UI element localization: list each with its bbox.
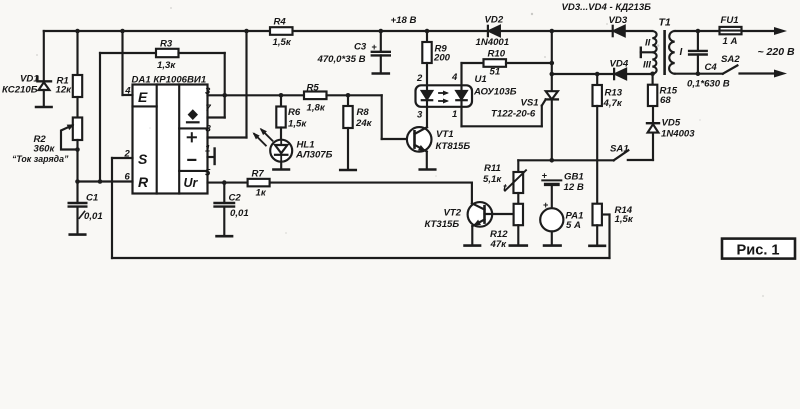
svg-text:12 В: 12 В xyxy=(564,182,584,193)
svg-text:470,0*35 В: 470,0*35 В xyxy=(317,54,366,65)
svg-text:1N4003: 1N4003 xyxy=(661,129,695,140)
svg-text:6: 6 xyxy=(125,172,131,183)
svg-text:E: E xyxy=(138,89,148,105)
svg-text:0,1*630 В: 0,1*630 В xyxy=(687,79,730,90)
svg-text:VD2: VD2 xyxy=(485,14,504,25)
svg-text:Рис. 1: Рис. 1 xyxy=(737,242,780,258)
svg-text:5: 5 xyxy=(205,168,211,179)
svg-text:1: 1 xyxy=(205,144,210,155)
svg-text:200: 200 xyxy=(433,53,451,64)
svg-text:1,3к: 1,3к xyxy=(157,60,176,71)
svg-text:12к: 12к xyxy=(56,85,73,96)
svg-text:51: 51 xyxy=(490,67,501,78)
svg-text:R11: R11 xyxy=(484,163,501,174)
svg-text:3: 3 xyxy=(417,109,423,120)
svg-text:КТ315Б: КТ315Б xyxy=(425,219,460,230)
svg-text:II: II xyxy=(645,37,651,48)
svg-text:U1: U1 xyxy=(475,74,487,85)
svg-text:VD3: VD3 xyxy=(609,15,628,26)
svg-text:t: t xyxy=(503,182,507,194)
svg-text:VD5: VD5 xyxy=(662,118,681,129)
svg-text:АЛ307Б: АЛ307Б xyxy=(295,150,333,161)
svg-text:+18 В: +18 В xyxy=(391,15,417,26)
svg-text:4,7к: 4,7к xyxy=(603,98,623,109)
svg-text:3: 3 xyxy=(205,86,211,97)
svg-text:Т122-20-6: Т122-20-6 xyxy=(491,109,536,120)
svg-text:VT1: VT1 xyxy=(436,129,454,140)
svg-text:“Ток заряда”: “Ток заряда” xyxy=(12,154,69,164)
svg-text:7: 7 xyxy=(206,103,212,114)
svg-text:24к: 24к xyxy=(355,118,373,129)
svg-text:GB1: GB1 xyxy=(564,172,584,183)
svg-text:VD4: VD4 xyxy=(610,58,629,69)
svg-text:C1: C1 xyxy=(86,193,98,204)
svg-text:VD1: VD1 xyxy=(20,74,39,85)
svg-text:R3: R3 xyxy=(160,39,173,50)
svg-text:1N4001: 1N4001 xyxy=(476,37,510,48)
svg-text:SA1: SA1 xyxy=(610,143,629,154)
svg-text:1к: 1к xyxy=(256,188,267,199)
svg-text:5 А: 5 А xyxy=(566,220,581,231)
svg-text:C3: C3 xyxy=(354,42,367,53)
svg-text:T1: T1 xyxy=(659,17,671,29)
svg-text:VD3...VD4 - КД213Б: VD3...VD4 - КД213Б xyxy=(562,2,652,13)
svg-text:R8: R8 xyxy=(357,107,370,118)
svg-text:S: S xyxy=(138,151,148,167)
svg-text:+: + xyxy=(543,200,548,210)
svg-text:VT2: VT2 xyxy=(444,207,462,218)
svg-text:R5: R5 xyxy=(307,82,320,93)
svg-text:~ 220 В: ~ 220 В xyxy=(758,46,795,58)
svg-text:1,5к: 1,5к xyxy=(273,37,292,48)
svg-text:1,5к: 1,5к xyxy=(615,214,634,225)
svg-text:VS1: VS1 xyxy=(521,97,539,108)
svg-text:C4: C4 xyxy=(705,62,718,73)
svg-text:4: 4 xyxy=(124,86,131,97)
svg-text:0,01: 0,01 xyxy=(84,211,103,222)
svg-text:360к: 360к xyxy=(34,144,56,155)
svg-text:C2: C2 xyxy=(229,192,242,203)
svg-text:I: I xyxy=(680,47,683,58)
svg-text:АОУ103Б: АОУ103Б xyxy=(473,87,517,98)
svg-text:68: 68 xyxy=(660,95,671,106)
svg-text:R7: R7 xyxy=(252,169,265,180)
svg-text:0,01: 0,01 xyxy=(230,208,249,219)
svg-text:47к: 47к xyxy=(490,239,508,250)
svg-text:R10: R10 xyxy=(488,49,506,60)
svg-text:КТ815Б: КТ815Б xyxy=(436,141,471,152)
svg-text:2: 2 xyxy=(416,73,423,84)
svg-text:SA2: SA2 xyxy=(721,54,740,65)
svg-text:R4: R4 xyxy=(274,17,287,28)
svg-text:5,1к: 5,1к xyxy=(483,174,502,185)
svg-text:КС210Б: КС210Б xyxy=(2,85,38,96)
svg-text:+: + xyxy=(372,42,377,52)
svg-text:1: 1 xyxy=(452,109,457,120)
svg-text:1,5к: 1,5к xyxy=(288,118,307,129)
svg-text:DA1 КР1006ВИ1: DA1 КР1006ВИ1 xyxy=(132,75,207,86)
svg-text:FU1: FU1 xyxy=(721,15,739,26)
svg-text:4: 4 xyxy=(451,72,458,83)
svg-text:2: 2 xyxy=(124,148,131,159)
svg-text:Ur: Ur xyxy=(184,176,199,190)
svg-text:8: 8 xyxy=(206,124,212,135)
svg-text:1 А: 1 А xyxy=(723,36,738,47)
svg-text:III: III xyxy=(643,59,651,70)
svg-text:+: + xyxy=(542,171,547,181)
svg-text:R: R xyxy=(138,174,149,190)
svg-text:R6: R6 xyxy=(288,107,301,118)
svg-text:1,8к: 1,8к xyxy=(307,103,326,114)
